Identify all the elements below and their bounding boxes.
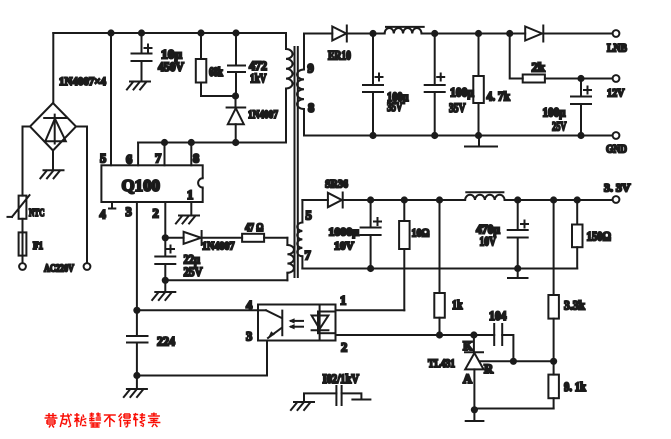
wire 22u to ground xyxy=(164,280,166,292)
svg-text:I02/1kV: I02/1kV xyxy=(323,372,360,386)
capacitor 10u450V xyxy=(132,33,152,82)
inductor L2 xyxy=(465,192,504,200)
wire secondary to ER10 xyxy=(304,33,332,35)
node rail-10ohm xyxy=(401,196,408,203)
terminal LNB xyxy=(613,30,620,37)
node rail-1k xyxy=(436,196,443,203)
wire opto pin2 to K node xyxy=(336,334,495,336)
node pin3vert-pin4wire xyxy=(133,307,140,314)
svg-text:150Ω: 150Ω xyxy=(587,230,612,244)
resistor 1k xyxy=(434,200,445,335)
AC220V terminal left xyxy=(19,263,26,270)
wire 12V top rail xyxy=(435,33,526,35)
transformer core xyxy=(294,47,296,277)
wire pin1 stub xyxy=(190,202,192,216)
node rail-472 xyxy=(232,29,239,36)
node rail-4.7k xyxy=(475,30,482,37)
svg-text:3: 3 xyxy=(126,205,132,219)
svg-text:K: K xyxy=(463,339,473,353)
svg-text:3. 3V: 3. 3V xyxy=(604,183,631,195)
svg-text:1kV: 1kV xyxy=(250,72,267,86)
node L1-C100a xyxy=(431,30,438,37)
resistor 9.1k xyxy=(548,361,559,408)
ground 12V rail (bar) xyxy=(478,136,480,147)
node 3.3k-9.1k xyxy=(550,358,557,365)
svg-text:100μ: 100μ xyxy=(450,86,474,100)
svg-text:4: 4 xyxy=(100,208,107,222)
node pin8 xyxy=(188,139,195,146)
wire primary top rail xyxy=(53,32,286,34)
svg-text:8: 8 xyxy=(308,101,314,115)
ground 470u (bar) xyxy=(517,269,519,278)
wire pin5 vertical xyxy=(110,33,112,165)
svg-text:SR36: SR36 xyxy=(325,177,348,191)
node K xyxy=(470,331,477,338)
svg-text:4. 7k: 4. 7k xyxy=(487,90,511,104)
node rail-3.3k xyxy=(550,196,557,203)
capacitor 100u35V second xyxy=(425,34,445,136)
diode LNB xyxy=(525,27,542,41)
node 68k-472 junction xyxy=(232,92,239,99)
ground 22u (hatched) xyxy=(152,292,175,300)
fuse F1 xyxy=(22,232,24,263)
svg-text:9. 1k: 9. 1k xyxy=(564,380,586,394)
inductor L1 xyxy=(373,27,435,34)
node 22u bottom xyxy=(162,277,169,284)
svg-text:224: 224 xyxy=(157,335,176,349)
optocoupler transistor xyxy=(258,310,282,338)
terminal GND xyxy=(613,132,620,139)
wire 3.3V top rail xyxy=(371,199,466,201)
ground bridge (hatched) xyxy=(40,170,63,178)
svg-text:Q100: Q100 xyxy=(122,176,161,195)
svg-text:R: R xyxy=(484,362,494,376)
resistor 47ohm xyxy=(242,234,264,242)
transformer primary winding xyxy=(286,33,293,143)
node rail-470u xyxy=(514,196,521,203)
node gnd-100u25V xyxy=(577,132,584,139)
wire 224 bottom to ground xyxy=(136,376,138,390)
resistor 3.3k xyxy=(548,200,559,361)
node 224 bottom xyxy=(133,372,140,379)
svg-text:47 Ω: 47 Ω xyxy=(245,222,264,234)
optocoupler light arrows xyxy=(289,318,303,329)
capacitor 100u35V first xyxy=(363,34,383,136)
wire rail left drop to bridge xyxy=(52,33,54,103)
svg-text:LNB: LNB xyxy=(607,43,627,55)
wire pin8 stub xyxy=(190,143,192,166)
resistor 4.7k xyxy=(473,34,484,136)
svg-text:A: A xyxy=(463,372,472,386)
svg-text:10V: 10V xyxy=(480,235,497,249)
ground 102 left (hatched) xyxy=(291,402,314,410)
resistor 10ohm xyxy=(399,200,410,310)
AC220V terminal right xyxy=(84,263,91,270)
node rail-2k xyxy=(506,30,513,37)
node rail-pin5 xyxy=(107,29,114,36)
svg-text:TL431: TL431 xyxy=(428,356,455,370)
node snubber-bus xyxy=(232,139,239,146)
node gnd-4.7k xyxy=(475,132,482,139)
wire R reference xyxy=(480,360,554,362)
NTC thermistor xyxy=(19,196,27,219)
node rail-68k xyxy=(197,29,204,36)
node 104-Rwire xyxy=(510,358,517,365)
svg-text:1N4007: 1N4007 xyxy=(202,241,235,253)
node 2k-100u25V xyxy=(577,75,584,82)
svg-text:25V: 25V xyxy=(184,265,203,279)
node pin7 xyxy=(161,139,168,146)
capacitor 472 1kV xyxy=(228,33,245,96)
ground pin1 (hatched) xyxy=(176,216,199,224)
capacitor 100u25V xyxy=(571,79,591,136)
svg-text:35V: 35V xyxy=(449,101,466,115)
terminal 3.3V xyxy=(613,196,620,203)
svg-text:2: 2 xyxy=(341,341,347,355)
svg-text:NTC: NTC xyxy=(29,208,45,219)
transformer secondary 9-8 xyxy=(297,34,304,136)
svg-text:10V: 10V xyxy=(334,241,355,253)
wire bridge right corner to AC terminal xyxy=(76,127,87,264)
diode 1N4007 feedback xyxy=(165,231,242,245)
wire opto pin4 xyxy=(137,309,258,311)
capacitor 1000u10V xyxy=(361,200,381,269)
svg-text:104: 104 xyxy=(489,309,507,323)
watermark red text xyxy=(45,413,161,428)
diode ER10 xyxy=(332,27,346,41)
diode 1N4007 snubber xyxy=(227,96,246,143)
ground 10u (hatched) xyxy=(127,82,150,90)
resistor 2k xyxy=(510,34,613,83)
svg-text:2: 2 xyxy=(153,207,159,221)
svg-text:1N4007×4: 1N4007×4 xyxy=(59,74,106,88)
capacitor 104 xyxy=(494,324,513,361)
svg-text:7: 7 xyxy=(305,249,311,263)
node pin2-22u xyxy=(162,234,169,241)
wire pin7 stub xyxy=(164,143,166,166)
svg-text:10Ω: 10Ω xyxy=(412,226,430,240)
wire 12V gnd rail xyxy=(304,135,613,137)
svg-text:9: 9 xyxy=(308,62,314,76)
svg-text:12V: 12V xyxy=(607,88,625,100)
optocoupler U2 box xyxy=(258,305,336,341)
capacitor 22u25V xyxy=(155,238,175,280)
svg-text:1k: 1k xyxy=(452,298,463,312)
wire pins 6-7-8 bus xyxy=(138,142,286,144)
svg-text:1: 1 xyxy=(187,188,193,202)
svg-text:6: 6 xyxy=(126,153,132,167)
wire pin6 stub xyxy=(137,143,139,166)
node 1k-Kwire xyxy=(436,331,443,338)
TL431 U3 xyxy=(465,335,484,410)
node A xyxy=(471,406,478,413)
svg-text:4: 4 xyxy=(246,299,253,313)
ground TL431 (bar) xyxy=(473,410,475,421)
transformer feedback winding xyxy=(165,238,294,280)
node bottomrail-1000u xyxy=(367,265,374,272)
svg-text:1000μ: 1000μ xyxy=(329,227,360,239)
node rail-1000u xyxy=(367,196,374,203)
resistor 68k xyxy=(196,33,236,96)
svg-text:5: 5 xyxy=(306,209,312,223)
IC Q100 xyxy=(101,165,202,202)
terminal 12V xyxy=(613,75,620,82)
diode SR36 xyxy=(328,193,342,207)
wire bridge bottom to ground xyxy=(52,151,54,171)
svg-text:3: 3 xyxy=(246,330,252,344)
wire rail after L2 xyxy=(505,199,613,201)
svg-text:3.3k: 3.3k xyxy=(564,299,585,313)
wire 3.3V bottom rail xyxy=(302,268,577,270)
svg-text:1: 1 xyxy=(340,294,346,308)
wire NTC to F1 xyxy=(22,219,24,233)
svg-text:F1: F1 xyxy=(33,241,43,252)
node rail-C1 xyxy=(138,29,145,36)
capacitor 224 xyxy=(127,310,148,375)
svg-text:68k: 68k xyxy=(209,65,223,79)
bridge rectifier 1N4007x4 xyxy=(30,103,76,151)
wire opto pin3 return xyxy=(137,341,267,376)
capacitor 102/1kV xyxy=(304,386,370,405)
optocoupler LED xyxy=(312,305,336,341)
transformer secondary 5-7 xyxy=(297,200,302,269)
capacitor 470u10V xyxy=(508,200,528,269)
svg-text:25V: 25V xyxy=(552,120,567,134)
wire pin3 vertical xyxy=(136,202,138,310)
node gnd-100u second xyxy=(431,132,438,139)
svg-text:2k: 2k xyxy=(532,61,546,75)
svg-text:AC220V: AC220V xyxy=(44,264,74,275)
node gnd-100u first xyxy=(369,132,376,139)
wire anode to 9.1k xyxy=(474,408,553,410)
svg-text:450V: 450V xyxy=(158,60,184,74)
svg-text:ER10: ER10 xyxy=(328,49,351,63)
wire winding5 to SR36 xyxy=(302,199,328,201)
svg-text:GND: GND xyxy=(606,144,627,156)
node rail-150ohm xyxy=(574,196,581,203)
svg-text:8: 8 xyxy=(193,152,199,166)
wire opto pin1 to 10ohm xyxy=(336,309,405,311)
svg-text:5: 5 xyxy=(100,152,106,166)
resistor 150ohm xyxy=(572,200,583,269)
ground 224 (hatched) xyxy=(124,389,147,397)
wire bridge left corner to NTC branch xyxy=(23,127,31,196)
node ER10-L1 xyxy=(369,30,376,37)
svg-text:35V: 35V xyxy=(387,100,403,114)
node 470u bottom xyxy=(514,265,521,272)
svg-text:7: 7 xyxy=(155,152,161,166)
wire pin4 stub xyxy=(111,202,113,209)
svg-text:1N4007: 1N4007 xyxy=(248,107,278,121)
wire pin2 vertical xyxy=(164,202,166,238)
svg-text:100μ: 100μ xyxy=(543,106,566,120)
